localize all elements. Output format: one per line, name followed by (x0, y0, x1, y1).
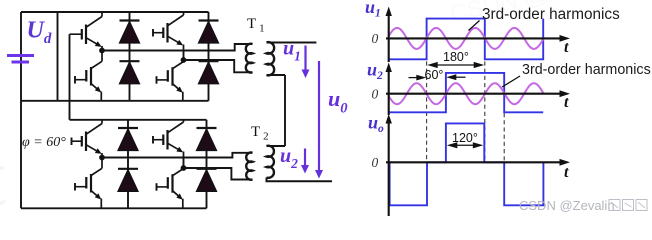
wire: node B to T1 primary bottom (184, 60, 253, 72)
wire: node D to T2 primary bottom (184, 168, 253, 180)
chart u2 y-axis (386, 63, 392, 116)
wire: diode leg 2 vertical (top bridge) (208, 12, 210, 101)
svg-text:t: t (564, 94, 569, 111)
waveform u1 square wave (388, 19, 543, 60)
diode D1 (120, 21, 140, 44)
waveform u0 stepped wave (390, 123, 544, 205)
wire: bottom bridge positive rail (70, 119, 207, 121)
watermark CSDN (519, 198, 647, 213)
wire: series link T1 to T2 (284, 75, 286, 146)
waveform u2 square wave (388, 73, 543, 112)
svg-text:180°: 180° (443, 50, 469, 64)
transistor Q4 (157, 51, 184, 101)
annotation 3rd-order harmonics (u1) (469, 6, 621, 31)
transformer T1 secondary winding (267, 42, 275, 75)
dimension 60 degrees (409, 74, 466, 80)
wire: node A to T1 primary top (102, 44, 253, 51)
guide dashed line at theta=180 (484, 47, 486, 162)
wire: top bridge positive rail (21, 11, 209, 13)
dimension 120 degrees (447, 142, 484, 148)
svg-text:0: 0 (372, 31, 379, 46)
transformer T1 primary winding (246, 44, 253, 73)
chart u0 x-axis (386, 159, 570, 166)
svg-text:3rd-order harmonics: 3rd-order harmonics (522, 62, 651, 78)
wire: top bridge negative rail (21, 100, 209, 102)
transistor Q6 (75, 158, 102, 209)
node C: bottom bridge leg1 midpoint (99, 155, 105, 161)
transformer T2 secondary winding (267, 146, 274, 178)
svg-text:φ = 60°: φ = 60° (22, 135, 66, 150)
wire: Ud column right vertical (57, 12, 59, 101)
chart u1 x-axis (386, 35, 570, 42)
svg-text:60°: 60° (425, 68, 444, 82)
diode D8 (197, 169, 217, 192)
transistor Q7 (153, 120, 184, 168)
transistor Q5 (72, 120, 103, 158)
diode D6 (118, 169, 138, 192)
svg-text:0: 0 (372, 87, 379, 102)
wire: T1 secondary top output (267, 42, 317, 44)
wire: vertical link to bottom bridge rail (69, 34, 71, 120)
chart u1 y-axis (386, 7, 392, 63)
wire: left DC bus vertical (20, 12, 22, 208)
wire: diode leg 2 vertical (bottom bridge) (206, 120, 208, 209)
diode D3 (199, 21, 219, 44)
chart u0 y-axis (386, 114, 392, 216)
wire: diode leg 1 vertical (bottom bridge) (127, 120, 129, 209)
wire: diode leg 1 vertical (top bridge) (129, 12, 131, 101)
svg-text:t: t (564, 164, 569, 181)
transformer T2 primary winding (246, 153, 252, 180)
arrow u2 (301, 149, 309, 174)
diode D5 (118, 128, 138, 151)
annotation 3rd-order harmonics (u2) (502, 62, 651, 87)
battery Ud source (7, 56, 34, 63)
waveform u1 3rd harmonic sine (388, 28, 543, 49)
svg-text:0: 0 (372, 155, 379, 170)
diode D4 (199, 61, 219, 83)
node D: bottom bridge leg2 midpoint (181, 165, 187, 171)
arrow u0 (315, 61, 323, 179)
svg-text:3rd-order harmonics: 3rd-order harmonics (482, 6, 620, 23)
svg-text:120°: 120° (452, 131, 478, 145)
waveform u2 3rd harmonic sine (388, 83, 543, 104)
wire: T2 secondary top stub (267, 145, 286, 147)
chart u2 x-axis (386, 90, 570, 97)
guide dashed line at theta=240 (503, 113, 505, 162)
svg-text:CSDN @Zevalin: CSDN @Zevalin (519, 198, 615, 213)
guide dashed line at theta=0 (426, 47, 428, 162)
wire: bottom bridge negative rail (21, 207, 207, 209)
wire: T1 secondary bottom to series link (267, 74, 286, 76)
wire: node C to T2 primary top (102, 153, 253, 158)
node A: top bridge leg1 midpoint (99, 48, 105, 54)
diode D2 (120, 61, 140, 83)
arrow u1 (302, 46, 310, 79)
svg-text:t: t (564, 39, 569, 56)
dimension 180 degrees (427, 62, 484, 68)
transistor Q2 (75, 51, 102, 101)
node B: top bridge leg2 midpoint (181, 57, 187, 63)
transistor Q1 (70, 12, 103, 51)
transistor Q3 (153, 12, 184, 60)
diode D7 (197, 128, 217, 151)
wire: T2 secondary bottom output (267, 178, 333, 182)
transistor Q8 (157, 158, 184, 209)
